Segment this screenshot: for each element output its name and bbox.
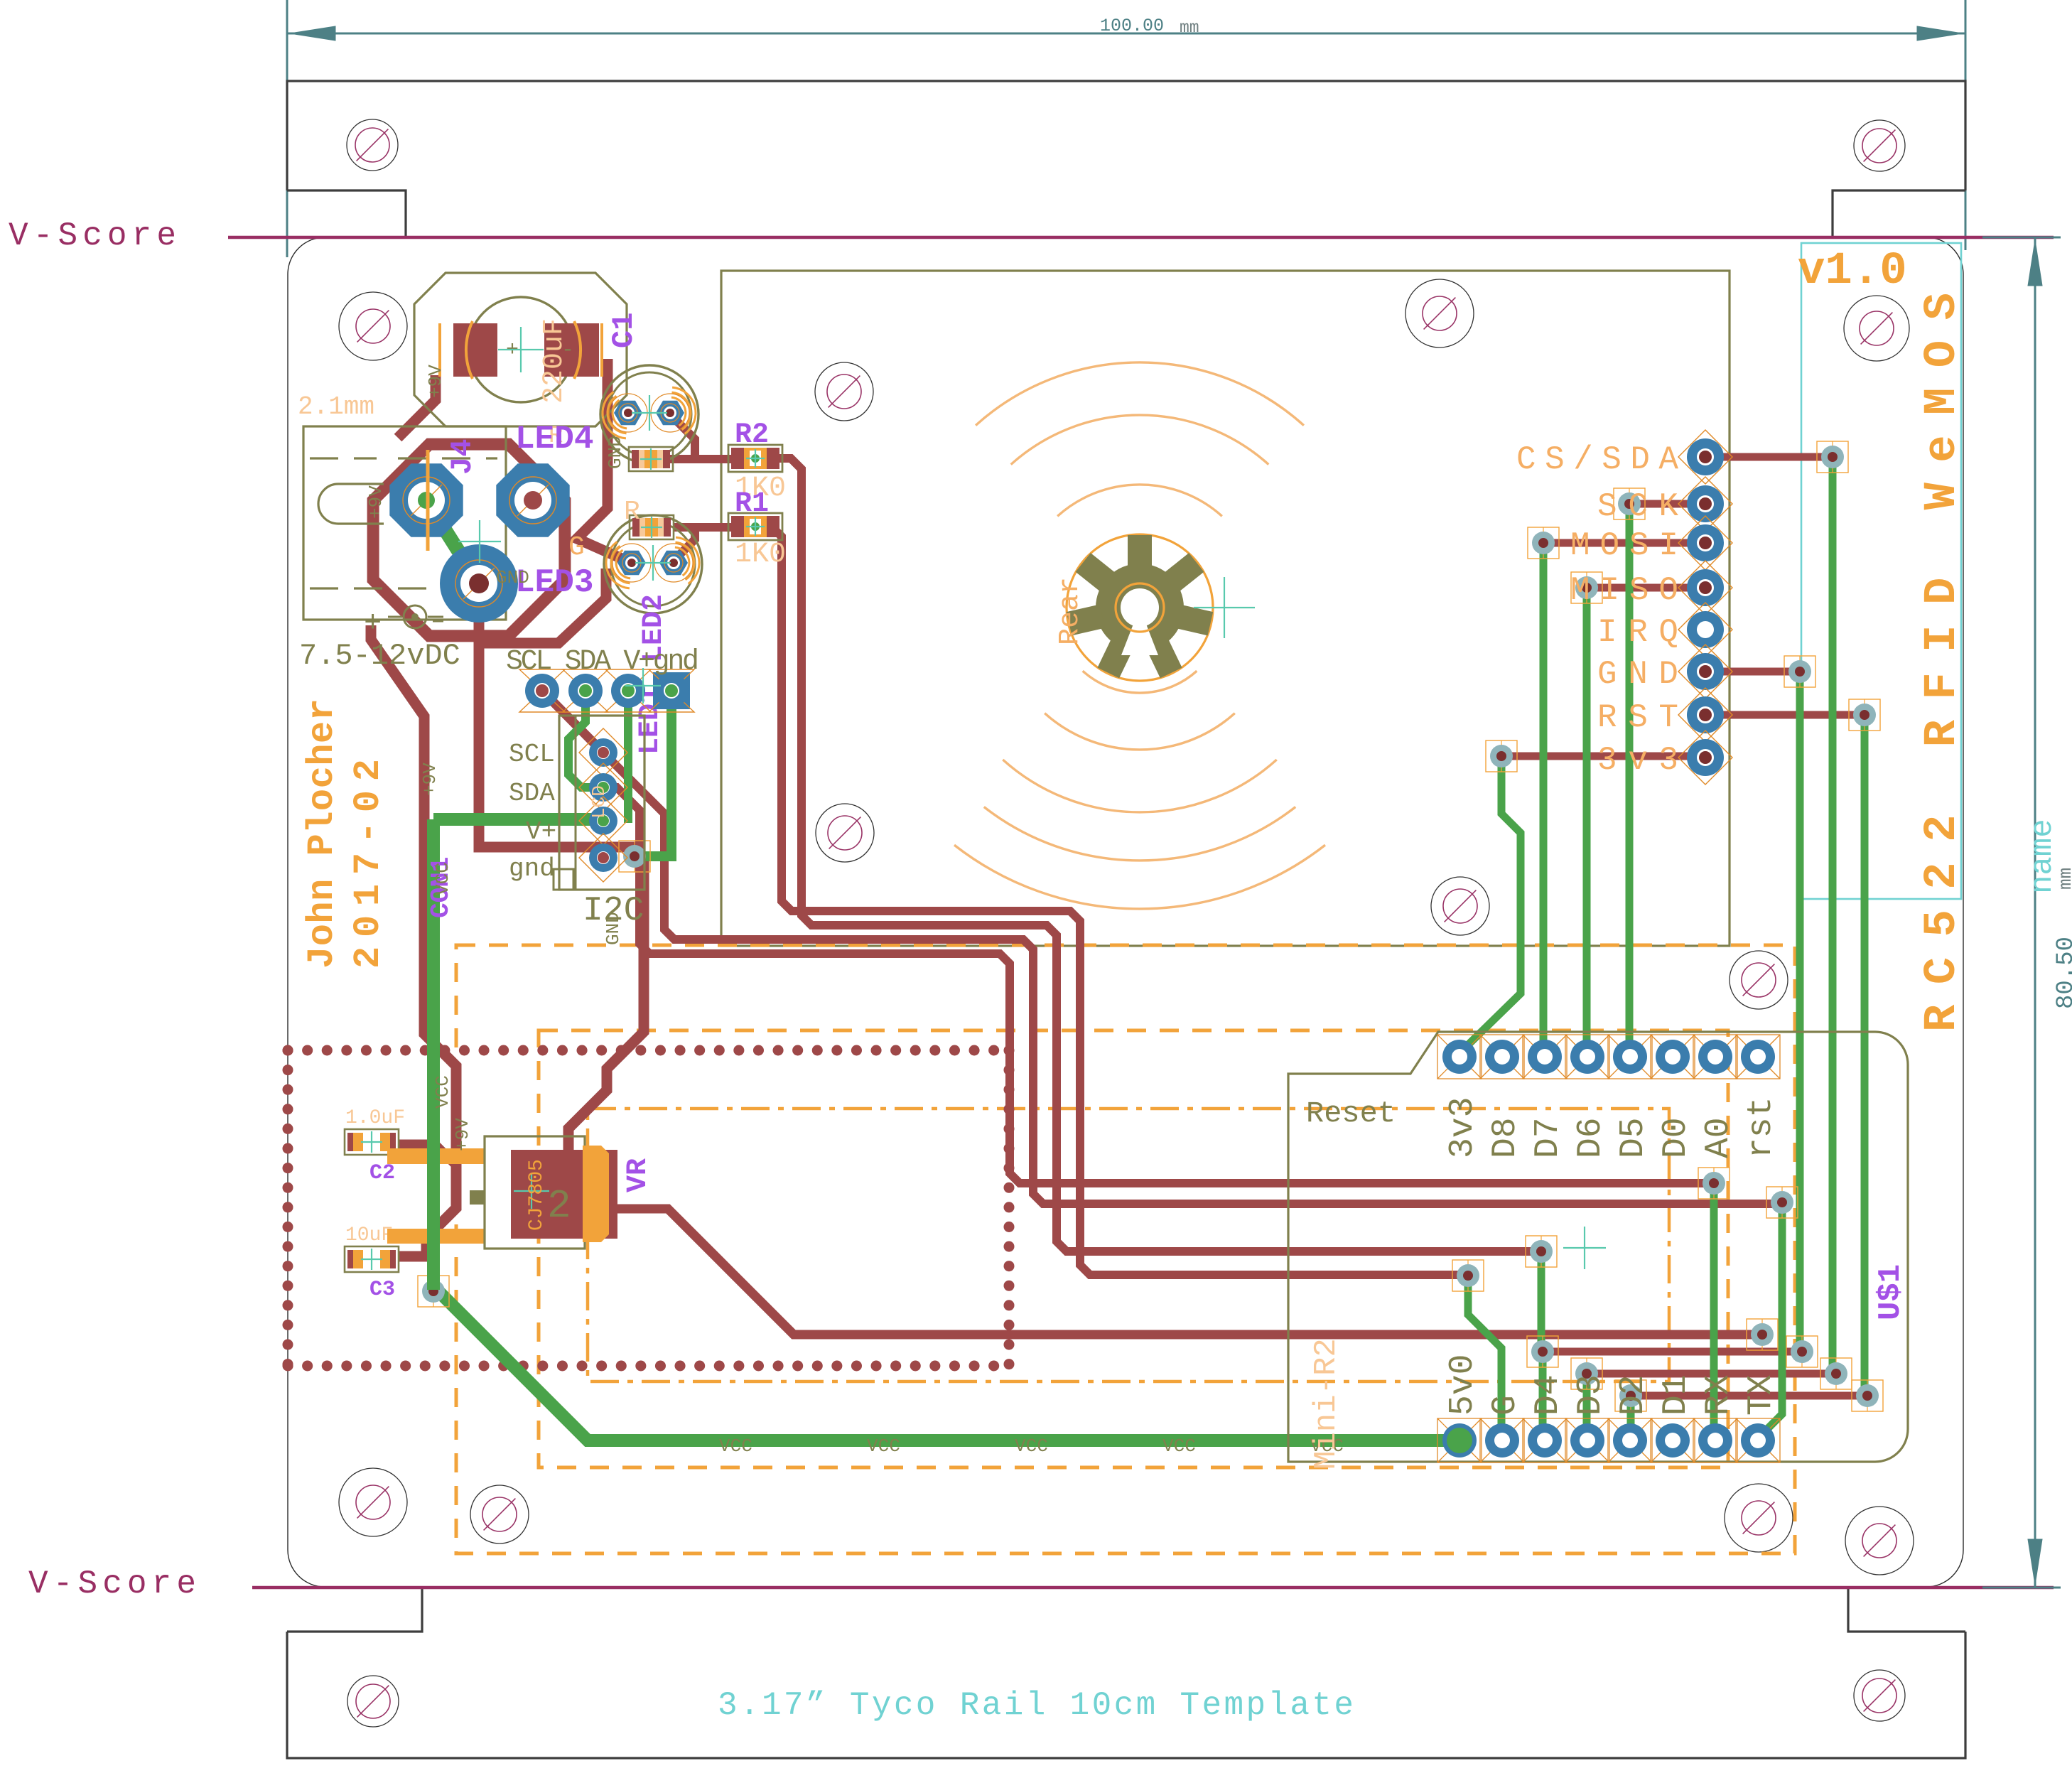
- svg-text:C2: C2: [369, 1161, 395, 1185]
- board outline: [288, 237, 1963, 1587]
- svg-text:R2: R2: [735, 419, 769, 451]
- wire GND C1 right pad down: [577, 359, 628, 561]
- svg-text:G: G: [1486, 1395, 1525, 1416]
- via MISO: [1571, 572, 1602, 603]
- capacitor C1: [414, 273, 627, 426]
- WeMOS top pad D5: [1608, 1035, 1652, 1079]
- wire LED1 to R1: [670, 527, 731, 564]
- wire green D4 column: [1539, 1352, 1547, 1440]
- wire I2C SDA to WeMOS (bundle 4): [603, 787, 1705, 1183]
- svg-text:A0: A0: [1700, 1117, 1738, 1158]
- capacitor C3: [345, 1246, 399, 1272]
- wire SCK green vertical: [1626, 504, 1634, 1057]
- svg-text:VCC: VCC: [1162, 1435, 1196, 1457]
- WeMOS bottom pad RX: [1693, 1418, 1737, 1462]
- I2C pin 1: [579, 728, 627, 777]
- svg-text:GND: GND: [603, 912, 624, 945]
- svg-text:220uF: 220uF: [539, 318, 571, 404]
- board hole top-left: [339, 292, 407, 360]
- RFID pad GND: [1678, 645, 1732, 699]
- board hole bottom-left: [339, 1468, 407, 1536]
- resistor R2: [728, 445, 782, 472]
- svg-text:LCD: LCD: [588, 785, 610, 819]
- svg-text:D6: D6: [1572, 1117, 1610, 1158]
- svg-text:+9V: +9V: [425, 365, 446, 398]
- svg-text:LED4: LED4: [515, 421, 593, 458]
- wire I2C V+ green: [624, 691, 632, 823]
- board hole top-center-right: [1405, 279, 1474, 347]
- via D0 net: [1526, 1236, 1557, 1267]
- wire I2C SDA green: [568, 691, 603, 787]
- dimension extension line left: [286, 0, 288, 257]
- svg-text:TX: TX: [1742, 1374, 1781, 1416]
- wire MISO green vertical: [1583, 588, 1591, 1057]
- wire +9V stub to C2: [398, 1144, 456, 1165]
- svg-text:3.17” Tyco Rail 10cm Template: 3.17” Tyco Rail 10cm Template: [718, 1687, 1354, 1724]
- power jack symbol: [364, 605, 443, 640]
- CON1 pin 3: [605, 669, 651, 712]
- RFID pad IRQ: [1678, 603, 1732, 657]
- svg-text:C1: C1: [607, 313, 641, 348]
- svg-text:Rear: Rear: [1054, 577, 1086, 645]
- svg-text:3v3: 3v3: [1597, 742, 1678, 779]
- LED LED1: [604, 515, 702, 613]
- VR orange rail top: [387, 1148, 485, 1164]
- wire green TX column: [1757, 1202, 1782, 1439]
- wire D-row link 2: [1587, 1370, 1836, 1378]
- wire MISO jumper: [1587, 584, 1705, 592]
- wire R1 net to WeMOS (bundle 1): [772, 527, 1461, 1275]
- svg-text:V+: V+: [526, 817, 556, 846]
- svg-text:GND: GND: [605, 436, 626, 469]
- WeMOS top pad A0: [1693, 1035, 1737, 1079]
- I2C pin 3: [579, 797, 627, 845]
- via 3v3: [1486, 740, 1517, 772]
- via RST: [1849, 699, 1880, 731]
- svg-text:D3: D3: [1572, 1374, 1610, 1416]
- WeMOS top pad D0: [1651, 1035, 1695, 1079]
- panel rail bottom-right notch: [1848, 1588, 1965, 1632]
- via link1: [1786, 1336, 1818, 1367]
- svg-text:10uF: 10uF: [345, 1224, 393, 1246]
- rail hole top-left: [347, 119, 398, 171]
- board hole bottom-left2: [470, 1485, 529, 1543]
- svg-text:+9V: +9V: [419, 763, 441, 796]
- panel rail top-left notch: [287, 190, 406, 237]
- svg-text:VCC: VCC: [719, 1435, 752, 1457]
- wire D-row link 3: [1631, 1392, 1867, 1400]
- wire MOSI jumper: [1543, 539, 1705, 547]
- via SCK: [1614, 488, 1645, 519]
- RFID pad MISO: [1678, 561, 1732, 615]
- wire CS/SDA jumper: [1705, 453, 1833, 461]
- svg-text:D2: D2: [1614, 1374, 1653, 1416]
- panel rail bottom-left notch: [287, 1588, 422, 1632]
- wire VCC to I2C V+: [433, 813, 597, 826]
- WeMOS top pad rst: [1736, 1035, 1780, 1079]
- svg-text:SCK: SCK: [1597, 488, 1678, 525]
- connector CON1 outline: [554, 716, 644, 890]
- svg-text:SCL: SCL: [509, 740, 555, 769]
- svg-text:U$1: U$1: [1873, 1264, 1909, 1320]
- I2C pin 4: [579, 834, 627, 882]
- board hole mid-left: [816, 804, 874, 862]
- board hole top-right: [1844, 296, 1909, 361]
- wire GND green long vertical: [1796, 672, 1804, 1352]
- VR orange rail bottom: [387, 1229, 485, 1244]
- svg-text:gnd: gnd: [509, 854, 555, 883]
- WeMOS bottom pad 5v0: [1437, 1418, 1482, 1462]
- via G net: [1452, 1260, 1484, 1291]
- svg-text:CJ7805: CJ7805: [526, 1159, 548, 1231]
- svg-text:1K0: 1K0: [735, 539, 786, 571]
- wire CS green long vertical: [1829, 457, 1837, 1374]
- fiducial cross wemos: [1563, 1247, 1606, 1249]
- via D4 net: [1527, 1336, 1558, 1367]
- V-Score line bottom: [252, 1586, 2054, 1590]
- V-Score line top: [228, 236, 2054, 239]
- wire green D2 column: [1627, 1396, 1635, 1440]
- wire I2C SCL diag from pad: [542, 691, 603, 753]
- wire VR output 5V: [617, 1209, 1754, 1335]
- dimension extension right top: [1982, 237, 2061, 239]
- wire VCC main vertical and to 5v0 pad: [433, 819, 1459, 1440]
- wire 3v3 jumper: [1501, 753, 1705, 760]
- svg-text:GND: GND: [496, 567, 529, 588]
- RFID pad MOSI: [1678, 516, 1732, 570]
- svg-text:V-Score: V-Score: [28, 1566, 196, 1602]
- shield keepout dashed rect B: [539, 1030, 1728, 1467]
- wire GND J4 pad3 down to I2C: [479, 583, 644, 1153]
- J4 pad 2: [496, 463, 569, 537]
- RFID pad SCK: [1678, 477, 1732, 531]
- rail hole bottom-left: [347, 1676, 399, 1727]
- svg-text:D8: D8: [1486, 1117, 1525, 1158]
- LED LED2: [600, 365, 698, 463]
- resistor R (LED2): [629, 447, 673, 471]
- board hole bottom-right2: [1725, 1484, 1793, 1552]
- fiducial cross center: [1194, 607, 1255, 608]
- via D3 net: [1571, 1358, 1602, 1389]
- svg-text:VCC: VCC: [432, 1075, 453, 1109]
- J4 pad 1: [389, 463, 463, 537]
- module dash-dot rect C: [588, 1109, 1669, 1381]
- svg-text:R: R: [624, 497, 640, 527]
- svg-text:v1.0: v1.0: [1798, 246, 1907, 297]
- wire VCC overdraw: [427, 1130, 440, 1290]
- via A0 net: [1698, 1168, 1730, 1199]
- J4 pad 3: [440, 544, 518, 623]
- resistor R1: [728, 513, 782, 540]
- svg-text:D4: D4: [1529, 1374, 1568, 1416]
- wire GND J4 pad1 to pad3: [426, 500, 479, 583]
- wire green D3 column: [1583, 1374, 1591, 1440]
- via D2 net: [1615, 1380, 1646, 1411]
- wire GND branch to LED: [479, 569, 606, 643]
- svg-text:1.0uF: 1.0uF: [345, 1107, 405, 1129]
- WeMOS top pad D6: [1565, 1035, 1609, 1079]
- svg-text:100.00: 100.00: [1100, 16, 1164, 36]
- svg-text:J4: J4: [446, 439, 480, 475]
- board hole mid-right: [1431, 877, 1489, 935]
- dimension extension right bottom: [1982, 1587, 2061, 1589]
- svg-text:80.50: 80.50: [2053, 937, 2072, 1009]
- wire green G column: [1468, 1276, 1501, 1440]
- WeMOS top pad D8: [1480, 1035, 1524, 1079]
- cyan info box: [1801, 243, 1961, 899]
- gear symbol (Rear): [1067, 534, 1213, 681]
- svg-text:GND: GND: [1597, 656, 1678, 693]
- wire GND jumper: [1705, 668, 1800, 676]
- svg-text:IRQ: IRQ: [1597, 614, 1678, 651]
- wire MOSI green vertical: [1540, 543, 1548, 1057]
- wire +9V ring around J4: [373, 444, 565, 636]
- svg-text:G: G: [568, 532, 585, 563]
- antenna arcs bottom: [1083, 671, 1197, 693]
- capacitor C2: [345, 1129, 399, 1155]
- svg-text:+9V: +9V: [452, 1118, 473, 1151]
- svg-text:SCL SDA V+gnd: SCL SDA V+gnd: [506, 646, 699, 678]
- WeMOS bottom pad G: [1480, 1418, 1524, 1462]
- CON1 pin 2: [563, 669, 608, 712]
- svg-text:Mini-R2: Mini-R2: [1309, 1338, 1344, 1470]
- via GND: [1784, 656, 1815, 687]
- dimension line 80.50 mm: [2034, 237, 2036, 1588]
- svg-text:mm: mm: [1180, 18, 1199, 37]
- antenna arcs bottom outer: [984, 807, 1295, 861]
- svg-text:5v0: 5v0: [1444, 1354, 1482, 1416]
- via 5V net: [1747, 1319, 1778, 1350]
- via CS/SDA: [1817, 441, 1848, 473]
- wire R2 net to WeMOS (bundle 2): [771, 458, 1534, 1251]
- wire RST jumper: [1705, 711, 1865, 719]
- svg-text:RX: RX: [1700, 1374, 1738, 1416]
- svg-text:D5: D5: [1614, 1117, 1653, 1158]
- svg-text:rst: rst: [1742, 1097, 1781, 1158]
- panel rail top-right notch: [1833, 190, 1965, 237]
- via link3: [1852, 1380, 1883, 1411]
- WeMOS bottom pad TX: [1736, 1418, 1780, 1462]
- shield keepout dashed rect A: [456, 945, 1795, 1553]
- antenna arcs top: [1057, 485, 1222, 516]
- wire +9V J4 to lower board: [371, 625, 456, 1256]
- svg-text:+9V: +9V: [365, 485, 387, 519]
- WeMOS top pad 3v3: [1437, 1035, 1482, 1079]
- svg-text:D0: D0: [1657, 1117, 1695, 1158]
- WeMOS bottom pad D3: [1565, 1418, 1609, 1462]
- WeMOS top pad D7: [1523, 1035, 1567, 1079]
- WeMOS module outline U$1: [1288, 1032, 1908, 1462]
- WeMOS bottom pad D2: [1608, 1418, 1652, 1462]
- WeMOS bottom pad D1: [1651, 1418, 1695, 1462]
- GND plane dotted rect: [288, 1045, 1009, 1056]
- svg-text:name: name: [2025, 819, 2061, 894]
- board hole wemos-top: [1730, 951, 1788, 1009]
- svg-text:D7: D7: [1529, 1117, 1568, 1158]
- wire green via link: [1538, 1251, 1545, 1352]
- wire RST green long vertical: [1861, 715, 1869, 1396]
- panel rail top outline: [287, 81, 1965, 190]
- svg-text:VR: VR: [622, 1158, 654, 1192]
- wire D-row link 1: [1543, 1348, 1802, 1356]
- resistor R (LED1): [630, 515, 674, 539]
- connector J4 outline: [303, 426, 506, 620]
- wire +9V from C1 to J4 ring: [398, 375, 436, 438]
- svg-text:2.1mm: 2.1mm: [298, 392, 374, 421]
- via link2: [1820, 1358, 1852, 1389]
- RFID pad 3v3: [1678, 731, 1732, 785]
- svg-text:D1: D1: [1657, 1374, 1695, 1416]
- RFID pad CS/SDA: [1678, 430, 1732, 484]
- svg-text:VCC: VCC: [867, 1435, 900, 1457]
- I2C pin 2: [579, 763, 627, 812]
- wire LED2 to R: [637, 414, 731, 459]
- wire I2C gnd green: [638, 691, 671, 856]
- svg-text:+: +: [364, 606, 382, 640]
- wire I2C SCL to WeMOS (bundle 3): [603, 753, 1774, 1204]
- wire SCK jumper: [1629, 500, 1705, 508]
- via rst net: [1766, 1187, 1798, 1218]
- rail hole bottom-right: [1854, 1670, 1905, 1721]
- RFID module outline: [721, 271, 1730, 946]
- CON1 pin 1: [519, 669, 565, 712]
- board hole mid-top-left: [815, 362, 873, 421]
- svg-text:V-Score: V-Score: [9, 217, 176, 254]
- wire green A0 column: [1710, 1183, 1718, 1440]
- wire 3v3 green vertical: [1459, 756, 1521, 1053]
- svg-text:Reset: Reset: [1306, 1097, 1396, 1131]
- RFID pad RST: [1678, 688, 1732, 742]
- rail hole top-right: [1854, 120, 1905, 171]
- via I2C gnd: [619, 841, 650, 872]
- svg-text:John Plocher: John Plocher: [301, 699, 343, 969]
- svg-text:C3: C3: [369, 1278, 395, 1302]
- svg-text:RST: RST: [1597, 699, 1678, 736]
- dimension extension line right: [1965, 0, 1967, 250]
- svg-text:7.5-12vDC: 7.5-12vDC: [299, 639, 460, 673]
- panel rail bottom outline: [287, 1632, 1965, 1758]
- via VCC: [418, 1276, 449, 1307]
- svg-text:3v3: 3v3: [1444, 1097, 1482, 1158]
- svg-text:2: 2: [547, 1183, 571, 1229]
- J4 pin mark: [426, 450, 430, 551]
- WeMOS bottom pad D4: [1523, 1418, 1567, 1462]
- voltage regulator VR: [470, 1136, 617, 1249]
- dimension line 100.00 mm: [287, 33, 1965, 35]
- svg-text:VCC: VCC: [432, 862, 453, 895]
- svg-text:R1: R1: [735, 488, 769, 520]
- svg-text:SDA: SDA: [509, 779, 555, 808]
- board hole bottom-right: [1845, 1507, 1914, 1575]
- svg-text:VCC: VCC: [1015, 1435, 1048, 1457]
- via MOSI: [1528, 527, 1559, 559]
- svg-text:2017-02: 2017-02: [347, 759, 389, 969]
- CON1 pin 4: [649, 669, 694, 712]
